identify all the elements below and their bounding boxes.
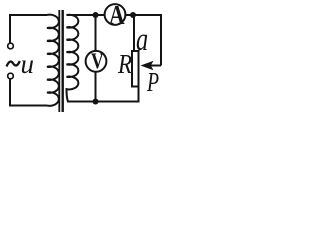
ammeter letter A — [109, 2, 125, 29]
wire rheostat top lead — [133, 16, 135, 50]
node junction V-bottom — [93, 99, 99, 105]
label R — [118, 51, 132, 78]
wiper arrow — [141, 61, 154, 70]
terminal upper — [8, 43, 14, 49]
transformer core — [58, 10, 60, 112]
voltmeter V — [86, 51, 107, 72]
wire secondary top left — [67, 14, 105, 16]
label a — [136, 24, 148, 57]
rheostat R body — [132, 51, 139, 87]
transformer secondary winding L2 — [67, 15, 79, 102]
transformer primary winding L1 — [47, 15, 59, 106]
wire secondary top right — [126, 15, 161, 66]
wire wiper lead — [150, 65, 161, 67]
voltmeter letter V — [91, 50, 104, 72]
wire secondary bottom — [67, 101, 140, 103]
label P — [147, 69, 159, 96]
node junction rheostat-top — [130, 12, 136, 18]
label u — [21, 51, 35, 78]
wire rheostat bottom lead — [138, 88, 140, 102]
label tilde (AC) — [7, 61, 20, 67]
node junction V-top — [93, 12, 99, 18]
terminal lower — [8, 73, 14, 79]
wire voltmeter bottom lead — [95, 72, 97, 102]
ammeter A — [105, 4, 126, 25]
wire primary bottom — [10, 79, 47, 106]
wire primary top — [10, 15, 47, 43]
wire voltmeter top lead — [95, 15, 97, 51]
